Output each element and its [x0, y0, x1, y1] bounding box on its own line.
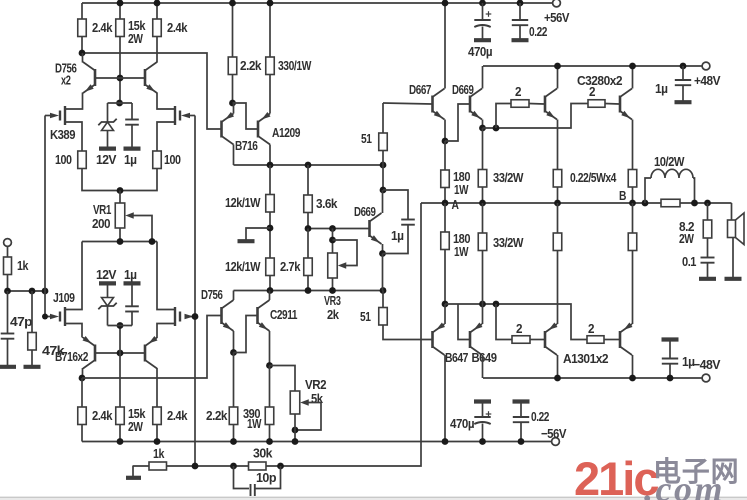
capacitor 47p C2	[1, 334, 15, 339]
svg-text:1µ: 1µ	[124, 267, 137, 282]
junction lower bias node	[117, 322, 124, 329]
label 330/1W R12	[278, 58, 312, 73]
wire Q11 collector up	[233, 291, 235, 301]
junction node X1	[79, 50, 86, 57]
junction 390 -56	[266, 438, 273, 445]
wire B716 base rail	[95, 352, 145, 354]
junction 12k mid	[267, 225, 274, 232]
capacitor 470u C7	[474, 411, 491, 424]
junction rail304 base tap	[493, 301, 500, 308]
wire cap C3 stem	[131, 312, 133, 326]
junction feedback node	[192, 463, 199, 470]
resistor 1k R6	[4, 257, 12, 275]
junction B716 base rail	[117, 350, 124, 357]
svg-text:1µ: 1µ	[391, 228, 404, 243]
junction Q12 emitter node	[266, 362, 273, 369]
wire C10 bottom	[669, 364, 671, 378]
junction zobel	[704, 200, 711, 207]
junction Q13 collector node	[380, 187, 387, 194]
label A1209	[272, 125, 300, 140]
junction rail128 base tap	[493, 125, 500, 132]
transistor D669 (VAS) Q13	[370, 213, 382, 244]
junction Q10 collector rail	[267, 162, 274, 169]
svg-text:VR3: VR3	[324, 293, 341, 308]
wire Q12 emitter to VR2	[270, 366, 296, 392]
resistor 2 R21	[511, 100, 529, 108]
svg-text:12V: 12V	[96, 267, 117, 282]
wire C9 to ground	[682, 85, 684, 100]
svg-text:2: 2	[515, 84, 521, 99]
label 2.2k R11	[240, 58, 262, 73]
wire Q11 emitter to Q12 base	[234, 316, 257, 353]
label 33/2W R30	[493, 235, 524, 250]
svg-text:3.6k: 3.6k	[316, 196, 338, 211]
svg-text:2: 2	[588, 321, 594, 336]
label 47k R7	[42, 343, 65, 358]
wire Q14 emitter to Q15 base	[445, 104, 469, 141]
junction 2.2k -56	[230, 438, 237, 445]
wire 470u C5 feed	[482, 3, 484, 20]
svg-text:12V: 12V	[96, 152, 117, 167]
wire D756 base rail	[95, 77, 145, 79]
wire 47k to ground	[31, 350, 33, 365]
junction rail290 51	[380, 287, 387, 294]
wire 33 R24 feed	[482, 128, 484, 170]
junction -48 1u	[667, 375, 674, 382]
svg-text:100: 100	[55, 152, 72, 167]
wire 180 R27 feed	[444, 203, 446, 232]
resistor 2.4k R10	[153, 407, 162, 425]
wire K389#2 source to 100R	[157, 122, 175, 151]
capacitor 470u C5	[474, 11, 491, 27]
wire Q17 emitter down	[632, 120, 634, 170]
wire R30 bottom	[482, 251, 484, 305]
label K389	[50, 127, 75, 142]
wire inductor left leg	[645, 178, 651, 203]
transistor D756 (2nd stage) Q11	[222, 300, 234, 331]
wire VR3 wiper	[333, 240, 358, 266]
wire R25 to rail	[557, 187, 559, 203]
svg-text:x2: x2	[61, 73, 71, 88]
label 200 VR1	[92, 216, 110, 231]
wire Q12 emitter down	[269, 331, 271, 366]
wire zener D2 stem	[107, 307, 109, 326]
capacitor 1u C1	[125, 120, 139, 125]
junction +56 rail / R2	[117, 0, 124, 6]
ground C6	[512, 38, 529, 42]
wire bias node horizontal	[108, 102, 133, 104]
junction Q15 emitter rail	[479, 125, 486, 132]
label 10/2W	[654, 154, 685, 169]
junction J109#1 gate corner	[42, 314, 48, 320]
wire C6 to ground	[519, 25, 521, 38]
wire R11 to B716 emitter node	[232, 75, 234, 104]
wire Q17 collector up	[632, 66, 634, 89]
label 1k R6	[17, 258, 29, 273]
resistor 0.22 R32	[628, 233, 637, 251]
resistor 15k/2W R9	[116, 407, 125, 425]
svg-text:200: 200	[92, 216, 110, 231]
wire 0.1 to ground	[707, 263, 709, 277]
svg-text:1W: 1W	[454, 244, 469, 259]
svg-text:B716x2: B716x2	[55, 349, 88, 364]
wire Q1 emitter to K389#1 drain	[65, 93, 83, 110]
wire Q10 emitter up	[269, 103, 271, 114]
wire 2.2k to -56	[233, 425, 235, 442]
label 2k VR3	[327, 307, 340, 322]
wire R20 to B647 base	[383, 325, 432, 340]
svg-text:D669: D669	[354, 204, 376, 219]
resistor 0.22 R25	[553, 169, 562, 187]
svg-text:10/2W: 10/2W	[654, 154, 685, 169]
capacitor 1u C3	[125, 306, 139, 311]
wire node X2 rail to D756 driver base	[82, 316, 221, 379]
label x2 D756	[61, 73, 71, 88]
label 100 R5	[164, 152, 181, 167]
wire Q9 emitter up	[233, 103, 234, 114]
svg-text:A1301x2: A1301x2	[563, 351, 608, 366]
svg-text:2W: 2W	[128, 419, 144, 434]
junction rail R25	[554, 200, 561, 207]
label J109	[53, 290, 75, 305]
resistor 3.6k R15	[304, 195, 313, 213]
wire 2.7k feed	[307, 229, 309, 259]
svg-text:D669: D669	[452, 82, 474, 97]
wire 8.2 to 0.1	[707, 238, 709, 257]
svg-text:51: 51	[361, 131, 372, 146]
wire Q13 emitter to rail290	[382, 254, 384, 291]
wire drain rail lower	[82, 241, 157, 243]
svg-text:2.4k: 2.4k	[92, 20, 113, 35]
junction +48 Q16	[554, 63, 561, 70]
capacitor 10p C12	[251, 484, 255, 496]
label 180 R23	[453, 169, 470, 184]
svg-text:1W: 1W	[454, 182, 469, 197]
ground C8	[513, 399, 530, 403]
wire 12k R13 feed	[269, 165, 271, 195]
junction VR2 bottom node	[292, 427, 299, 434]
wire 47p feed	[7, 291, 9, 333]
wire C7 bottom	[482, 424, 484, 442]
transistor C3280 Q17	[620, 89, 632, 120]
junction 3.6k rail	[305, 162, 312, 169]
label 2 R21	[515, 84, 521, 99]
svg-text:B: B	[619, 188, 626, 203]
resistor 30k R36	[249, 462, 267, 470]
label 1u C9	[655, 81, 668, 96]
transistor B716 (2nd stage) Q9	[222, 112, 235, 145]
label 1u C3	[124, 267, 137, 282]
junction input node left	[4, 288, 11, 295]
label 2.4k R8	[92, 408, 113, 423]
resistor 12k/1W R14	[266, 258, 275, 276]
ground speaker	[725, 277, 742, 281]
resistor 51 R19	[379, 133, 388, 151]
label 2.4k R10	[167, 408, 188, 423]
watermark 21ic	[574, 452, 658, 500]
svg-text:12k/1W: 12k/1W	[225, 259, 261, 274]
svg-text:12k/1W: 12k/1W	[225, 195, 261, 210]
wire R23 to node A	[444, 188, 446, 204]
wire 2.2k R18 feed	[233, 353, 235, 408]
svg-text:100: 100	[164, 152, 181, 167]
wire 51 R19 base line	[383, 103, 432, 104]
wire gnd stub	[246, 228, 270, 240]
junction rail 33 R24	[479, 200, 486, 207]
wire VR1 stem bottom	[119, 228, 121, 242]
wire input to 1k	[7, 247, 9, 258]
wire 2.4k R1 top feed	[81, 3, 83, 19]
label 1W R17	[247, 416, 262, 431]
wire Q10 collector down	[269, 145, 271, 166]
svg-text:K389: K389	[50, 127, 75, 142]
svg-text:1k: 1k	[17, 258, 29, 273]
svg-text:51: 51	[360, 309, 371, 324]
label 1W R23	[454, 182, 469, 197]
junction +56 0.22	[517, 0, 524, 6]
resistor 2.2k R11	[228, 57, 237, 75]
ground C10	[662, 337, 679, 341]
label 470u C5	[468, 44, 492, 59]
resistor 15k/2W R2	[116, 19, 125, 37]
wire bias line 15k to base rail	[119, 37, 121, 104]
transistor B716 (pair, left) Q7	[83, 336, 96, 369]
label 2.4k R3	[167, 20, 188, 35]
wire gate line down to J109#1	[45, 291, 53, 317]
wire 330 R12 feed	[269, 3, 271, 57]
label A1301x2	[563, 351, 608, 366]
label 12k/1W R14	[225, 259, 261, 274]
wire Q12 collector up	[269, 291, 271, 301]
wire Q15 emitter down	[482, 120, 484, 129]
label 2 R29	[588, 321, 594, 336]
label 470u C7	[450, 416, 474, 431]
jfet J109 (left half) Q5	[60, 307, 65, 326]
junction +56 rail / R3	[154, 0, 161, 6]
svg-text:33/2W: 33/2W	[493, 235, 524, 250]
svg-text:−48V: −48V	[693, 357, 721, 372]
wire Q8 emitter	[156, 337, 158, 338]
wire 8.2 feed	[707, 203, 709, 220]
svg-text:2.2k: 2.2k	[206, 408, 228, 423]
wire ground drop	[132, 466, 134, 476]
wire Q21 emitter up	[632, 251, 634, 325]
wire J109#2 drain	[157, 242, 175, 310]
wire emitter rail y304	[445, 304, 587, 340]
wire VR1 stem top	[119, 191, 121, 204]
label C2911	[270, 307, 297, 322]
junction input node mid	[29, 288, 36, 295]
wire Q7 collector to node X2	[82, 368, 84, 378]
wire Q19 emitter up	[482, 304, 484, 324]
wire R29 to Q21 base	[604, 339, 619, 341]
label 12V D2	[96, 267, 117, 282]
ground 47p	[0, 365, 16, 369]
wire R14 to rail y290	[269, 276, 271, 291]
junction +56 / R11	[229, 0, 236, 6]
wire R19 to rail165	[382, 151, 384, 166]
label 100 R4	[55, 152, 72, 167]
svg-text:2.4k: 2.4k	[167, 408, 188, 423]
svg-text:33/2W: 33/2W	[493, 170, 524, 185]
label 2W R34	[679, 231, 695, 246]
wire R10 to -56 rail	[156, 425, 158, 442]
ground cap C3	[124, 281, 141, 285]
wire Q19 collector down	[482, 355, 484, 378]
wire R21 to Q16 base	[529, 103, 544, 106]
transistor B647 Q18	[433, 323, 446, 356]
label 12V D1	[96, 152, 117, 167]
svg-text:.com: .com	[644, 469, 725, 500]
wire J109#1 drain	[65, 242, 82, 310]
wire Q2 emitter to K389#2 drain	[157, 93, 175, 110]
label 33/2W R24	[493, 170, 524, 185]
wire bias stem to 15k	[119, 353, 121, 407]
junction -56 0.22	[518, 438, 525, 445]
wire Q8 collector to 2.4k	[156, 368, 158, 407]
svg-text:A1209: A1209	[272, 125, 300, 140]
junction +56 / R12	[267, 0, 274, 6]
wire C8 bottom	[520, 422, 522, 441]
wire VR3 bottom	[332, 278, 334, 291]
wire Q11 emitter down	[233, 331, 235, 353]
junction rail290 Q12 collector	[267, 287, 274, 294]
resistor 100 R5	[153, 151, 162, 169]
svg-text:2: 2	[516, 321, 522, 336]
label 8.2 R34	[679, 219, 694, 234]
wire rail y290	[234, 290, 384, 292]
resistor 2.4k R8	[78, 407, 87, 425]
svg-text:2W: 2W	[128, 31, 144, 46]
junction Q11 emitter	[230, 349, 237, 356]
wire C5 to ground	[482, 27, 484, 39]
wire VR2 wiper	[295, 403, 321, 431]
wire C8 top	[520, 402, 522, 418]
wire R31 top	[557, 203, 559, 233]
resistor 180/1W R27	[441, 232, 450, 250]
wire +48V rail	[483, 65, 706, 67]
wire R32 top	[632, 203, 634, 233]
ground feedback	[126, 476, 141, 480]
wire zener D1 top	[107, 103, 109, 122]
label 1W R27	[454, 244, 469, 259]
junction VR2 -56	[292, 438, 299, 445]
label 1u C1	[124, 152, 137, 167]
label B716x2	[55, 349, 88, 364]
resistor 2.7k R16	[304, 258, 313, 276]
transistor D756 (pair, left) Q1	[83, 62, 95, 93]
wire Q14 emitter down	[444, 120, 446, 142]
wire source rail upper	[82, 169, 157, 191]
resistor 2.4k R1	[78, 19, 87, 37]
potentiometer VR1 200	[115, 203, 134, 228]
resistor 33/2W R24	[478, 169, 487, 187]
speaker LS1	[728, 213, 745, 245]
wire R27 to Q18 node	[444, 250, 446, 305]
wire J109#2 source	[157, 324, 175, 338]
label -48V	[693, 357, 721, 372]
wire Q18 base feed	[458, 304, 469, 340]
wire rail y228 to D669 base	[308, 228, 369, 230]
node A	[452, 197, 460, 212]
resistor 0.22 R31	[553, 233, 562, 251]
label VR1	[93, 202, 111, 217]
resistor 100 R4	[78, 151, 87, 169]
label B647	[445, 350, 468, 365]
transistor A1301 Q21	[620, 323, 633, 356]
capacitor 0.22 C8	[513, 417, 529, 422]
label 2.2k R18	[206, 408, 228, 423]
wire R35 to feedback node	[167, 465, 249, 467]
resistor 2 R22	[588, 100, 605, 108]
potentiometer VR2 5k	[290, 391, 309, 414]
label 1k R35	[153, 446, 165, 461]
junction rail304 B649	[479, 301, 486, 308]
svg-text:1W: 1W	[247, 416, 262, 431]
wire 3.6k feed	[307, 165, 309, 195]
svg-text:1k: 1k	[153, 446, 165, 461]
label 1u C4	[391, 228, 404, 243]
junction rail228 VR3	[329, 225, 336, 232]
wire 2.4k R8 feed	[81, 378, 83, 407]
wire cap C1 top	[131, 103, 133, 120]
wire ground rail feedback	[133, 465, 150, 467]
jfet K389 (left half) Q3	[60, 106, 65, 125]
junction VR1 bottom	[117, 238, 124, 245]
label 2.4k R1	[92, 20, 113, 35]
junction -48 Q20	[554, 375, 561, 382]
junction 30k right	[277, 463, 284, 470]
svg-text:0.1: 0.1	[682, 254, 696, 269]
label 2 R28	[516, 321, 522, 336]
wire R22 to Q17 base	[605, 103, 619, 106]
svg-text:VR1: VR1	[93, 202, 111, 217]
wire Q18 emitter up	[444, 304, 446, 324]
svg-text:C3280x2: C3280x2	[577, 73, 622, 88]
wire 51 R19 top	[382, 103, 384, 133]
resistor 2.4k R3	[153, 19, 162, 37]
ground zener D2	[99, 281, 116, 285]
terminal -56V	[552, 438, 560, 446]
wire Q7 emitter	[82, 337, 84, 338]
junction R9 -56	[117, 438, 124, 445]
resistor 2 R29	[587, 336, 604, 344]
wire J109#1 source	[65, 324, 82, 338]
transistor D756 (pair, right) Q2	[145, 62, 157, 93]
svg-text:1µ: 1µ	[124, 152, 137, 167]
wire gate line K389#1/J109#1	[44, 116, 46, 292]
junction Q18 emitter node	[442, 301, 449, 308]
junction feedback / J109#2 gate	[192, 313, 199, 320]
capacitor 1u C4	[401, 220, 415, 225]
label 12k/1W R13	[225, 195, 261, 210]
arrow K389#2 gate	[181, 113, 190, 118]
wire -56V rail	[82, 441, 556, 443]
wire R24 to rail	[482, 187, 484, 203]
label 2W R2	[128, 31, 144, 46]
wire R12 to A1209 emitter	[269, 75, 271, 104]
wire lower bias stem	[119, 326, 121, 354]
svg-text:B647: B647	[445, 350, 468, 365]
resistor 1k R35	[149, 462, 167, 470]
transistor B649 Q19	[470, 323, 483, 356]
terminal -48V	[702, 374, 710, 382]
wire +56V rail	[82, 2, 556, 4]
wire R26 to rail	[632, 187, 634, 203]
junction R10 -56	[154, 438, 161, 445]
wire K389#1 gate	[45, 115, 53, 117]
wire Q21 collector down	[632, 355, 634, 378]
